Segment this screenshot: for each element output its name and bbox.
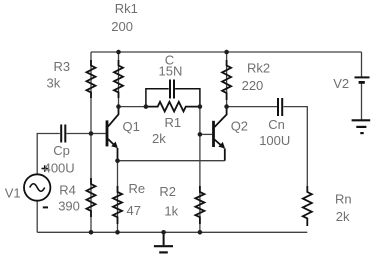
node Rk2 top rail junction xyxy=(224,50,229,55)
svg-text:100U: 100U xyxy=(259,133,290,148)
svg-text:390: 390 xyxy=(58,199,80,214)
resistor R2 1k xyxy=(195,186,204,224)
svg-text:220: 220 xyxy=(242,78,264,93)
node R2 bottom junction xyxy=(198,230,203,235)
battery V2 xyxy=(355,77,370,82)
resistor Re 47 xyxy=(113,186,122,224)
wire Cn to Rn xyxy=(284,107,308,192)
resistor Rk2 220 xyxy=(222,60,231,100)
capacitor Cp 400U xyxy=(61,125,65,143)
wire emitter feedback Q1 to Q2 xyxy=(118,160,225,162)
svg-text:2k: 2k xyxy=(152,131,166,146)
svg-text:Rk1: Rk1 xyxy=(115,1,138,16)
wire Q2 base lead xyxy=(200,133,212,135)
wire V1 bottom xyxy=(36,201,38,233)
svg-text:400U: 400U xyxy=(44,161,75,176)
svg-text:2k: 2k xyxy=(336,209,350,224)
svg-text:Rk2: Rk2 xyxy=(247,61,270,76)
resistor R3 3k xyxy=(87,60,96,98)
wire Re vertical xyxy=(117,161,119,233)
svg-text:Q1: Q1 xyxy=(123,119,140,134)
wire Rk1 vertical xyxy=(118,52,120,107)
svg-text:47: 47 xyxy=(127,203,141,218)
resistor Rk1 200 xyxy=(114,60,123,98)
svg-text:15N: 15N xyxy=(159,64,183,79)
capacitor Cn 100U xyxy=(278,98,282,116)
source V1 xyxy=(24,165,50,207)
wire R3-R4 vertical line xyxy=(90,52,92,232)
ground (V2 negative) xyxy=(352,120,371,133)
wire Q2 base node down to R2 xyxy=(199,134,201,232)
node Q1 emitter junction xyxy=(115,158,120,163)
node R1 right junction xyxy=(198,104,203,109)
wire Rk2 vertical xyxy=(226,52,228,107)
svg-text:R4: R4 xyxy=(59,183,76,198)
svg-text:Rn: Rn xyxy=(335,191,352,206)
transistor Q1 xyxy=(107,107,119,161)
svg-text:Q2: Q2 xyxy=(231,119,248,134)
svg-text:V2: V2 xyxy=(333,76,349,91)
svg-text:R1: R1 xyxy=(165,115,182,130)
svg-text:V1: V1 xyxy=(5,186,21,201)
wire node Q2 collector to Cn xyxy=(227,106,277,108)
transistor Q2 xyxy=(214,107,227,161)
transistor Q1 emitter arrow xyxy=(111,142,118,148)
node R1 left junction xyxy=(144,104,149,109)
resistor R1 2k horizontal xyxy=(146,102,200,112)
wire R1 right dot down to Q2 base node xyxy=(199,107,201,135)
node Q2 base junction xyxy=(198,132,203,137)
wire top rail xyxy=(91,51,362,53)
wire V2 branch bottom to ground xyxy=(361,84,363,120)
wire V1 to Cp xyxy=(37,134,60,175)
resistor Rn 2k xyxy=(303,186,312,226)
node Q1 base junction xyxy=(89,131,94,136)
wire bottom rail xyxy=(37,231,307,233)
transistor Q2 emitter arrow xyxy=(218,142,225,148)
svg-text:Re: Re xyxy=(129,181,146,196)
svg-text:Cn: Cn xyxy=(268,117,285,132)
svg-text:Cp: Cp xyxy=(53,143,70,158)
node Q2 collector junction xyxy=(224,104,229,109)
wire V2 branch top xyxy=(361,52,363,77)
node Rk1 top rail junction xyxy=(116,50,121,55)
wire Q1 base lead xyxy=(91,133,106,135)
wire Cp to base node xyxy=(67,133,92,135)
node Re bottom junction xyxy=(115,230,120,235)
node Q1 collector junction xyxy=(116,104,121,109)
svg-text:3k: 3k xyxy=(47,76,61,91)
node R4 bottom junction xyxy=(89,230,94,235)
svg-text:1k: 1k xyxy=(164,203,178,218)
resistor R4 390 xyxy=(87,178,96,217)
svg-text:R2: R2 xyxy=(159,184,176,199)
wire node collector Q1 to R1 left xyxy=(119,106,146,108)
svg-text:200: 200 xyxy=(111,19,133,34)
svg-text:R3: R3 xyxy=(54,59,71,74)
node ground junction xyxy=(161,230,166,235)
capacitor C 15N xyxy=(146,80,200,107)
ground (bottom center) xyxy=(154,232,173,252)
